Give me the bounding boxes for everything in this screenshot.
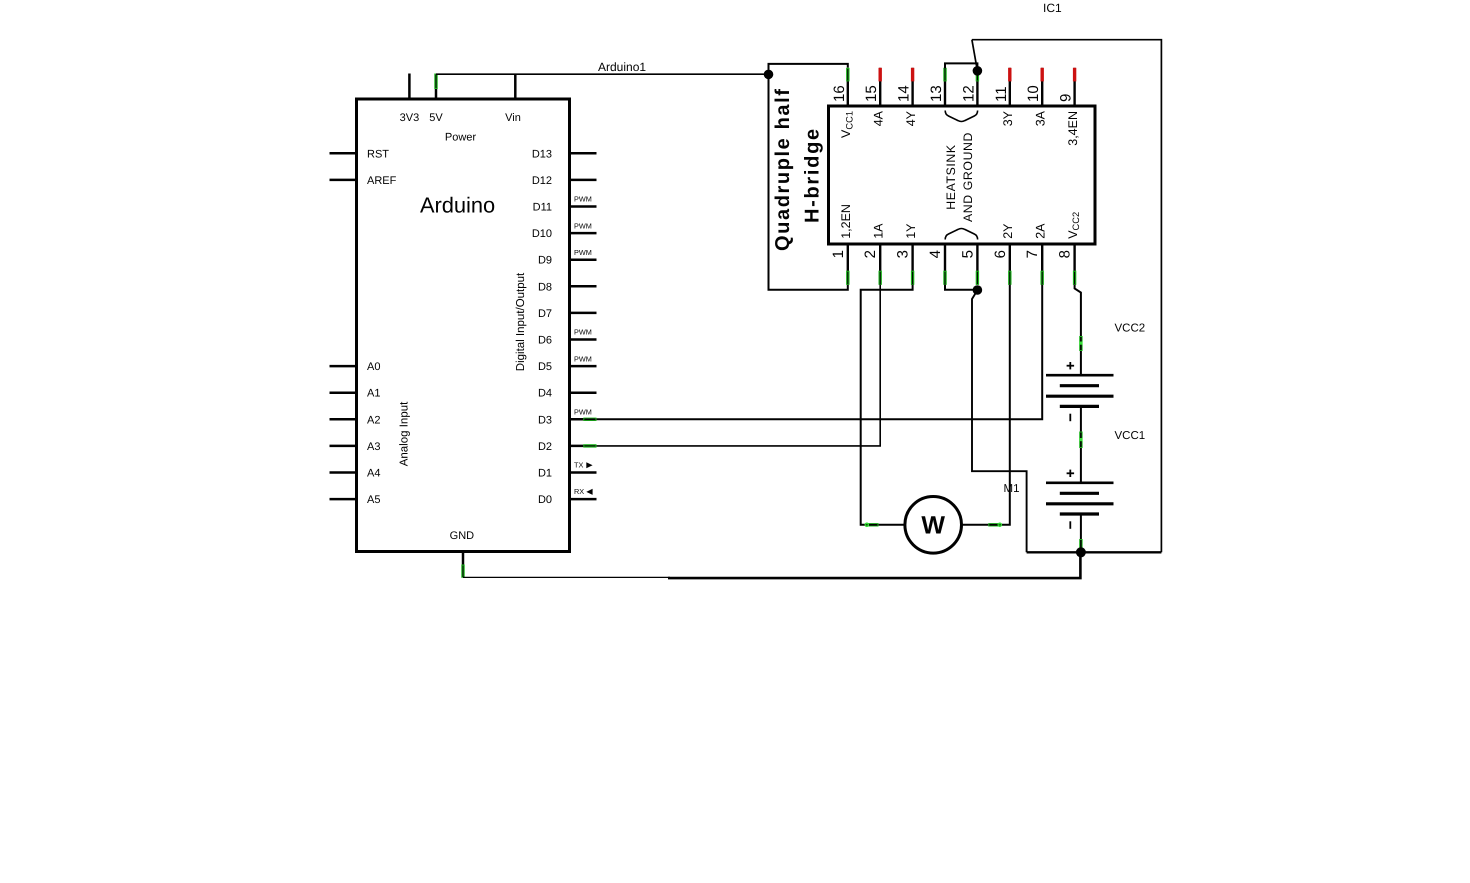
battery VCC1 <box>1046 470 1114 529</box>
op-amp-style IC1 body (quadruple half H-bridge) <box>829 106 1096 244</box>
svg-text:Quadruple half: Quadruple half <box>772 87 794 251</box>
arduino section label Power <box>446 133 476 141</box>
wire ground rail bottom segment <box>1027 551 1162 553</box>
wire D2 to IC1 pin2 (1A) <box>597 285 881 446</box>
wire diagonal into pin12 junction <box>972 40 978 71</box>
svg-text:12: 12 <box>960 85 977 102</box>
arduino pin AREF <box>330 175 397 187</box>
IC1 pin 12 (top) <box>960 68 977 106</box>
svg-text:VCC1: VCC1 <box>1115 430 1146 442</box>
svg-text:3,4EN: 3,4EN <box>1066 111 1080 146</box>
arduino pin D7 <box>538 308 597 320</box>
svg-text:10: 10 <box>1025 85 1042 102</box>
IC1 brace for pins 13,12 <box>945 111 977 122</box>
arduino pin A0 <box>330 361 381 373</box>
arduino pin D8 <box>538 281 597 293</box>
svg-text:14: 14 <box>896 85 913 102</box>
svg-text:5: 5 <box>959 250 976 258</box>
arduino pin GND (green tip) <box>450 530 475 578</box>
ground junction dot <box>1076 547 1086 557</box>
wire IC1 pin5 to ground rail <box>972 290 1027 552</box>
wire Arduino GND to ground node (thick segment) <box>668 552 1080 578</box>
IC1 pin 5 (bottom, green tip) <box>959 244 977 285</box>
svg-text:Vin: Vin <box>505 112 521 124</box>
svg-text:D3: D3 <box>538 414 552 426</box>
wire IC1 pin8 (VCC2) to battery VCC2 plus <box>1075 285 1081 377</box>
arduino pin RST <box>330 148 390 160</box>
svg-text:2Y: 2Y <box>1001 223 1015 239</box>
arduino pin D6 <box>538 328 597 347</box>
svg-text:H-bridge: H-bridge <box>802 127 824 223</box>
wire IC1 pin3 (1Y) to motor M1 left terminal <box>861 285 913 525</box>
arduino pin D10 <box>532 221 597 240</box>
arduino pin A4 <box>330 468 381 480</box>
svg-text:A3: A3 <box>367 441 380 453</box>
svg-text:VCC2: VCC2 <box>1115 323 1146 335</box>
arduino Arduino1 body <box>357 99 570 552</box>
wire IC1 pin13 to pin12 <box>945 63 977 68</box>
arduino pin D11 <box>533 195 597 214</box>
IC1 pin 9 (top) <box>1058 68 1080 146</box>
svg-text:13: 13 <box>928 85 945 102</box>
svg-text:D7: D7 <box>538 308 552 320</box>
junction dot at IC1 pin12 <box>973 66 983 76</box>
wire D3 to IC1 pin7 (2A) <box>597 285 1043 420</box>
arduino pin 3V3 <box>400 74 420 125</box>
svg-text:PWM: PWM <box>574 328 592 337</box>
svg-text:AREF: AREF <box>367 175 397 187</box>
arduino pin D5 <box>538 354 597 373</box>
junction dot at 5V rail <box>764 70 774 80</box>
svg-text:PWM: PWM <box>574 195 592 204</box>
motor M1 left terminal (green) <box>867 523 879 526</box>
arduino pin A2 <box>330 414 381 426</box>
svg-text:2A: 2A <box>1033 223 1047 239</box>
svg-text:6: 6 <box>992 250 1009 258</box>
svg-text:A1: A1 <box>367 388 380 400</box>
svg-text:RST: RST <box>367 148 389 160</box>
svg-text:16: 16 <box>831 85 848 102</box>
wire 5V up and right to IC (net Arduino1) <box>436 73 769 75</box>
svg-text:AND GROUND: AND GROUND <box>961 132 975 222</box>
IC1 pin 15 (top) <box>863 68 885 126</box>
wire ground rail: pin12 up, right edge, down to battery minus node <box>972 40 1162 553</box>
svg-text:A0: A0 <box>367 361 380 373</box>
svg-text:HEATSINK: HEATSINK <box>944 144 958 210</box>
svg-text:GND: GND <box>450 530 475 542</box>
arduino pin D3 <box>538 408 597 427</box>
wire Arduino GND to ground node (thin segment) <box>463 576 670 578</box>
svg-text:11: 11 <box>993 86 1010 102</box>
wire IC1 pin4 to pin5 <box>945 285 977 290</box>
svg-text:9: 9 <box>1058 94 1075 102</box>
svg-text:TX: TX <box>574 460 583 469</box>
svg-text:PWM: PWM <box>574 408 592 417</box>
svg-text:D13: D13 <box>532 148 552 160</box>
svg-text:1A: 1A <box>871 223 885 239</box>
arduino label Arduino <box>420 197 494 213</box>
svg-text:4Y: 4Y <box>904 110 918 126</box>
svg-text:D4: D4 <box>538 388 552 400</box>
svg-text:PWM: PWM <box>574 248 592 257</box>
svg-text:3: 3 <box>895 250 912 258</box>
wire IC1 pin6 (2Y) to motor M1 right terminal <box>962 285 1010 525</box>
svg-text:4: 4 <box>927 250 944 258</box>
svg-text:1Y: 1Y <box>904 223 918 239</box>
IC1 pin 2 (bottom, green tip) <box>862 223 885 285</box>
svg-text:2: 2 <box>862 250 879 258</box>
arduino pin D0 <box>538 487 597 506</box>
svg-text:8: 8 <box>1057 250 1074 258</box>
junction dot at IC1 pin5 <box>973 285 983 295</box>
arduino section label Digital Input/Output <box>516 273 527 370</box>
IC1 pin 13 (top) <box>928 68 945 106</box>
arduino pin Vin <box>505 74 521 125</box>
svg-text:15: 15 <box>863 85 880 102</box>
svg-text:D1: D1 <box>538 468 552 480</box>
arduino section label Analog Input <box>399 402 410 466</box>
svg-text:1: 1 <box>830 250 847 258</box>
svg-text:3Y: 3Y <box>1001 110 1015 126</box>
IC1 pin 7 (bottom, green tip) <box>1024 223 1047 285</box>
svg-text:3V3: 3V3 <box>400 112 420 124</box>
battery VCC2 <box>1046 362 1114 421</box>
IC1 brace for pins 4,5 <box>945 229 977 240</box>
arduino pin A1 <box>330 388 381 400</box>
svg-text:A4: A4 <box>367 468 380 480</box>
IC1 pin 4 (bottom, green tip) <box>927 244 945 285</box>
svg-text:D0: D0 <box>538 494 552 506</box>
svg-text:D12: D12 <box>532 175 552 187</box>
svg-text:1,2EN: 1,2EN <box>839 204 853 239</box>
IC1 pin 11 (top) <box>993 68 1015 126</box>
IC1 title Quadruple half H-bridge <box>772 87 794 251</box>
IC1 pin 10 (top) <box>1025 68 1047 126</box>
IC1 pin 16 (top) <box>831 68 855 138</box>
svg-text:A5: A5 <box>367 494 380 506</box>
svg-text:D10: D10 <box>532 228 552 240</box>
motor M1 right terminal (green) <box>988 523 1000 526</box>
IC1 pin 1 (bottom, green tip) <box>830 204 853 285</box>
arduino pin D13 <box>532 148 597 160</box>
arduino pin D9 <box>538 248 597 267</box>
wire VCC2 minus to VCC1 plus <box>1080 406 1082 483</box>
svg-text:PWM: PWM <box>574 354 592 363</box>
arduino pin D1 <box>538 460 597 479</box>
svg-text:D2: D2 <box>538 441 552 453</box>
IC1 pin 3 (bottom, green tip) <box>895 223 918 285</box>
svg-text:M1: M1 <box>1004 483 1020 495</box>
svg-text:D6: D6 <box>538 335 552 347</box>
svg-text:A2: A2 <box>367 414 380 426</box>
svg-text:RX: RX <box>574 487 584 496</box>
svg-text:D9: D9 <box>538 255 552 267</box>
svg-text:D5: D5 <box>538 361 552 373</box>
arduino pin D12 <box>532 175 597 187</box>
svg-text:7: 7 <box>1024 250 1041 258</box>
wire VCC1 minus to ground node <box>1080 514 1082 552</box>
svg-text:W: W <box>921 512 945 540</box>
arduino pin A3 <box>330 441 381 453</box>
svg-text:Arduino1: Arduino1 <box>598 60 646 74</box>
arduino pin D4 <box>538 388 597 400</box>
arduino pin A5 <box>330 494 381 506</box>
svg-text:4A: 4A <box>871 110 885 126</box>
svg-text:3A: 3A <box>1033 110 1047 126</box>
arduino pin D2 <box>538 441 597 453</box>
IC1 internal label HEATSINK AND GROUND <box>944 144 958 210</box>
svg-text:5V: 5V <box>429 112 443 124</box>
wire bracket: IC1 pin16 and pin1 to 5V rail <box>769 64 848 290</box>
IC1 pin 8 (bottom, green tip) <box>1057 212 1082 285</box>
svg-text:D8: D8 <box>538 281 552 293</box>
svg-text:IC1: IC1 <box>1043 1 1062 15</box>
IC1 pin 6 (bottom, green tip) <box>992 223 1015 285</box>
motor M1 <box>905 497 962 554</box>
svg-text:D11: D11 <box>533 202 552 214</box>
arduino pin 5V (connected, green tip) <box>429 74 443 125</box>
IC1 pin 14 (top) <box>896 68 918 126</box>
svg-text:PWM: PWM <box>574 221 592 230</box>
